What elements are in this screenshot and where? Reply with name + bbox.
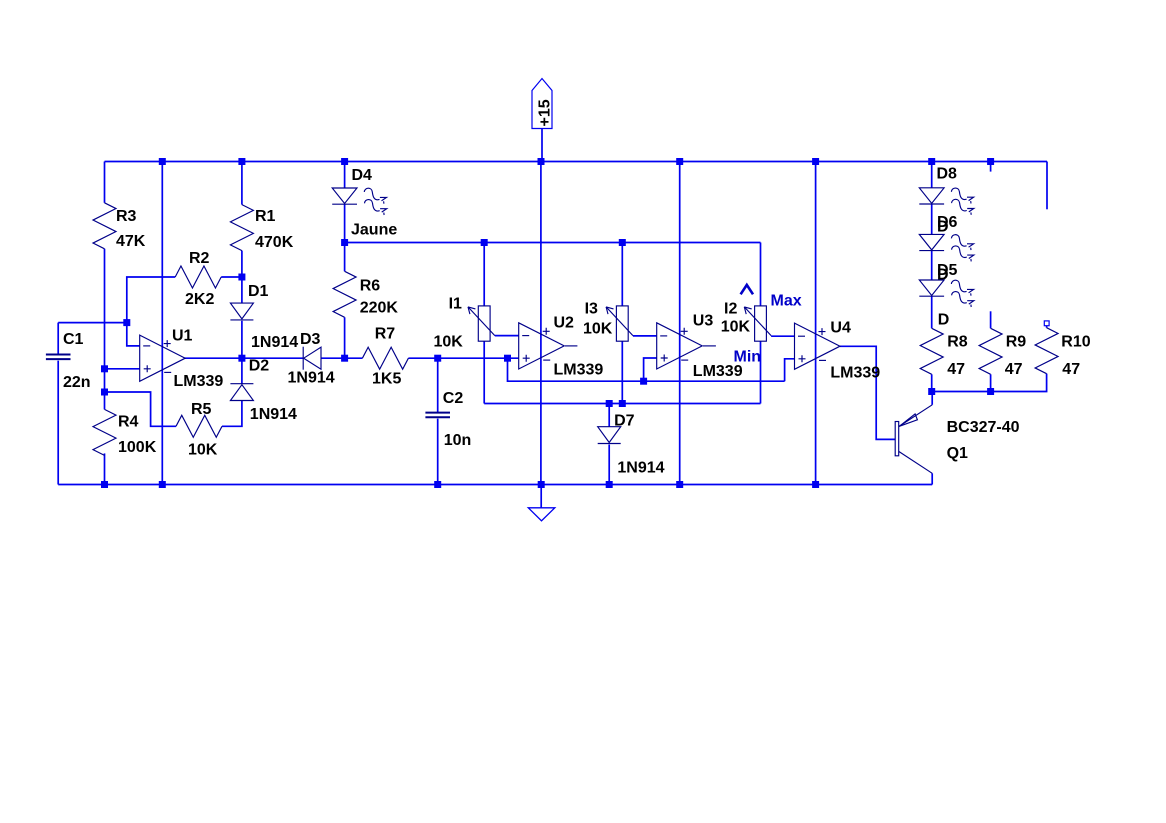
svg-text:D: D: [938, 312, 950, 329]
wire D7 cathode: [608, 445, 610, 485]
wire I1 bottom lead: [483, 341, 485, 403]
junction top bus / D8: [928, 158, 935, 165]
wire R6 bottom to node B: [344, 317, 346, 358]
svg-text:R9: R9: [1006, 334, 1027, 351]
LED D6: [919, 234, 974, 261]
svg-text:LM339: LM339: [693, 363, 743, 380]
power flag +15: [532, 79, 552, 129]
wire ground bottom bus: [58, 484, 932, 486]
junction node B: [341, 355, 348, 362]
resistor R2: [175, 266, 221, 288]
svg-text:R1: R1: [255, 208, 276, 225]
svg-text:C1: C1: [63, 331, 84, 348]
resistor R8: [920, 328, 943, 374]
junction R9 bottom: [987, 388, 994, 395]
op-amp U4 comparator: [795, 323, 841, 369]
svg-text:47: 47: [1062, 361, 1080, 378]
wire I2 top lead: [760, 243, 762, 306]
wire Q1 collector lead: [931, 473, 933, 484]
resistor R6: [333, 271, 356, 317]
wire U2 power rail: [540, 162, 542, 485]
junction top bus / U1 rail: [159, 158, 166, 165]
wire R4 bottom: [104, 453, 106, 484]
svg-text:Q1: Q1: [947, 445, 968, 462]
diode D1: [230, 303, 253, 320]
op-amp U2 comparator: [519, 323, 565, 369]
wire output node to D3 cathode: [242, 357, 303, 359]
diode D3: [303, 347, 321, 370]
wire R3 top: [104, 162, 106, 203]
junction R1 / R2 / D1: [238, 274, 245, 281]
svg-text:R6: R6: [360, 278, 381, 295]
junction bottom bus / U1 rail: [159, 481, 166, 488]
wire +15 top supply bus: [105, 161, 1048, 163]
junction top bus / R1: [238, 158, 245, 165]
wire R6 top: [344, 243, 346, 272]
diode D7: [598, 427, 621, 444]
wire C1 top lead: [57, 323, 59, 356]
resistor R10: [1035, 328, 1058, 374]
resistor R7: [362, 347, 408, 369]
svg-text:Jaune: Jaune: [351, 222, 397, 239]
svg-text:R7: R7: [375, 326, 396, 343]
wire R7 to node C: [408, 357, 437, 359]
svg-text:470K: 470K: [255, 234, 294, 251]
wire U1 output: [185, 357, 242, 359]
svg-text:R3: R3: [116, 208, 137, 225]
wire D8 anode: [931, 162, 933, 188]
svg-text:100K: 100K: [118, 439, 157, 456]
wire C1 to node A: [58, 322, 127, 324]
svg-text:1N914: 1N914: [251, 334, 298, 351]
potentiometer I3: [606, 306, 633, 341]
wire D6 to D5: [931, 251, 933, 280]
diode D2: [230, 384, 253, 401]
junction top bus / +15: [538, 158, 545, 165]
wire I3 wiper to U3 inverting input: [633, 335, 657, 337]
wire bus stub at R9 column: [990, 162, 992, 172]
junction U2 plus input: [504, 355, 511, 362]
LED D4: [332, 188, 387, 215]
wire plus-input interconnect: [508, 358, 785, 381]
wire U2 output stub: [565, 345, 578, 347]
svg-text:47: 47: [947, 361, 965, 378]
wire top right stub: [1046, 162, 1048, 210]
wire R1 top: [241, 162, 243, 205]
wire R8 bottom: [931, 374, 933, 391]
wire ground stub: [540, 485, 542, 508]
wire to U4 plus input: [785, 359, 795, 381]
wire R9 bottom: [990, 374, 992, 391]
svg-text:Min: Min: [734, 349, 762, 366]
svg-text:1N914: 1N914: [250, 406, 297, 423]
wire node C to U2 plus input: [438, 357, 519, 359]
junction bottom bus / U4 rail: [812, 481, 819, 488]
potentiometer I2: [744, 306, 771, 341]
LED D5: [919, 280, 974, 307]
svg-text:I3: I3: [585, 301, 598, 318]
wire R1 bottom to D1: [241, 251, 243, 277]
svg-text:1K5: 1K5: [372, 371, 401, 388]
wire Q1 emitter lead: [931, 392, 933, 405]
svg-text:R10: R10: [1061, 334, 1090, 351]
junction bus2 / I3: [619, 239, 626, 246]
svg-text:LM339: LM339: [830, 365, 880, 382]
junction D7 / pot row: [606, 400, 613, 407]
svg-text:R2: R2: [189, 250, 210, 267]
junction top bus / U3 rail: [676, 158, 683, 165]
wire I3 top lead: [621, 243, 623, 306]
LED D8: [919, 188, 974, 215]
wire C2 top lead: [437, 358, 439, 413]
junction node C: [434, 355, 441, 362]
resistor R1: [230, 205, 253, 251]
svg-text:I1: I1: [449, 296, 462, 313]
junction top bus / D4: [341, 158, 348, 165]
junction I3 / pot row: [619, 400, 626, 407]
wire C2 bottom lead: [437, 419, 439, 485]
svg-text:D1: D1: [248, 283, 269, 300]
wire to U3 plus input: [644, 358, 657, 381]
svg-text:I2: I2: [724, 301, 737, 318]
svg-text:10K: 10K: [434, 334, 464, 351]
svg-text:47K: 47K: [116, 233, 146, 250]
wire R3-R4 rail: [104, 249, 106, 410]
svg-text:22n: 22n: [63, 374, 91, 391]
wire reference bus2: [345, 242, 761, 244]
svg-text:LM339: LM339: [174, 373, 224, 390]
svg-text:Max: Max: [771, 293, 802, 310]
svg-text:47: 47: [1005, 361, 1023, 378]
svg-text:1N914: 1N914: [617, 460, 664, 477]
potentiometer I1: [468, 306, 495, 341]
wire U3 output stub: [703, 345, 716, 347]
svg-text:BC327-40: BC327-40: [947, 419, 1020, 436]
transistor Q1: [895, 405, 932, 474]
wire U1 non-inverting input: [105, 368, 140, 370]
wire U1 power rail: [161, 162, 163, 485]
svg-text:D3: D3: [300, 331, 321, 348]
wire R8 row to R10: [932, 374, 1047, 392]
resistor R5: [176, 415, 222, 437]
wire D3 anode to node B: [321, 357, 345, 359]
wire pot bottom row: [484, 403, 760, 405]
wire output node to D2 cathode: [241, 358, 243, 384]
junction top bus / U4 rail: [812, 158, 819, 165]
wire D8 to D6: [931, 204, 933, 234]
svg-text:10n: 10n: [444, 432, 472, 449]
wire U3 power rail: [679, 162, 681, 485]
wire U4 power rail: [815, 162, 817, 485]
label +15: [537, 99, 554, 126]
wire R10 top stub: [1046, 326, 1048, 328]
wire D1 cathode to output node: [241, 321, 243, 358]
wire node B to R7: [345, 357, 363, 359]
svg-text:R4: R4: [118, 414, 139, 431]
svg-text:U1: U1: [172, 328, 193, 345]
wire I2 wiper to U4 inverting input: [771, 335, 794, 337]
resistor R3: [93, 203, 116, 249]
svg-text:+15: +15: [537, 99, 554, 126]
wire R2 right to R1 bottom: [221, 276, 242, 278]
svg-text:D8: D8: [937, 166, 958, 183]
terminal square R10: [1044, 321, 1049, 326]
junction R8 / Q1 emitter: [928, 388, 935, 395]
svg-text:D7: D7: [614, 413, 635, 430]
wire R4 tap to R5 left: [105, 392, 177, 426]
junction bus2 / I1: [481, 239, 488, 246]
svg-text:R5: R5: [191, 401, 212, 418]
capacitor C2: [425, 413, 450, 418]
junction top bus / stub: [987, 158, 994, 165]
svg-text:R8: R8: [947, 334, 968, 351]
capacitor C1: [46, 355, 71, 360]
svg-text:D: D: [937, 267, 949, 284]
wire node A to R2 left: [127, 277, 175, 323]
resistor R4: [93, 409, 116, 455]
svg-text:D2: D2: [249, 358, 270, 375]
wire D4 anode: [344, 162, 346, 189]
svg-text:1N914: 1N914: [288, 370, 335, 387]
wire I3 bottom lead: [621, 341, 623, 403]
junction U3 plus branch: [640, 378, 647, 385]
svg-text:D4: D4: [352, 167, 373, 184]
ground: [528, 508, 555, 521]
wire node A to U1 inverting input: [127, 323, 140, 346]
wire D7 anode: [608, 404, 610, 427]
svg-text:D: D: [937, 219, 949, 236]
wire I1 top lead: [483, 243, 485, 306]
junction bus2 / R6: [341, 239, 348, 246]
svg-text:10K: 10K: [583, 321, 613, 338]
svg-text:10K: 10K: [721, 319, 751, 336]
wire I2 bottom lead: [760, 341, 762, 403]
wire C1 bottom lead: [57, 361, 59, 485]
op-amp U3 comparator: [657, 323, 703, 369]
wire R5 right to D2 anode: [222, 401, 242, 426]
svg-text:LM339: LM339: [554, 362, 604, 379]
junction bottom bus / R4: [101, 481, 108, 488]
wire D4 cathode to bus2: [344, 204, 346, 242]
marker caret above I2: [741, 285, 753, 294]
svg-text:U4: U4: [830, 320, 851, 337]
wire +15 flag stub: [541, 129, 543, 162]
wire D1 anode: [241, 277, 243, 303]
svg-text:U3: U3: [693, 313, 714, 330]
svg-text:10K: 10K: [188, 442, 218, 459]
junction node A: [123, 319, 130, 326]
junction bottom bus / ground: [538, 481, 545, 488]
junction bottom bus / U3 rail: [676, 481, 683, 488]
svg-text:U2: U2: [554, 315, 575, 332]
junction U1 output node: [238, 355, 245, 362]
svg-text:220K: 220K: [360, 300, 399, 317]
junction R5 tap: [101, 389, 108, 396]
svg-text:C2: C2: [443, 390, 464, 407]
wire D5 to R8: [931, 296, 933, 328]
resistor R9: [979, 328, 1002, 374]
junction U1 plus tap: [101, 365, 108, 372]
junction bottom bus / C2: [434, 481, 441, 488]
junction bottom bus / D7: [606, 481, 613, 488]
wire I1 wiper to U2 inverting input: [495, 335, 519, 337]
op-amp U1 comparator: [140, 335, 186, 381]
wire R9 top stub: [990, 311, 992, 328]
svg-text:2K2: 2K2: [185, 291, 214, 308]
wire U4 output to Q1 base: [840, 346, 895, 439]
